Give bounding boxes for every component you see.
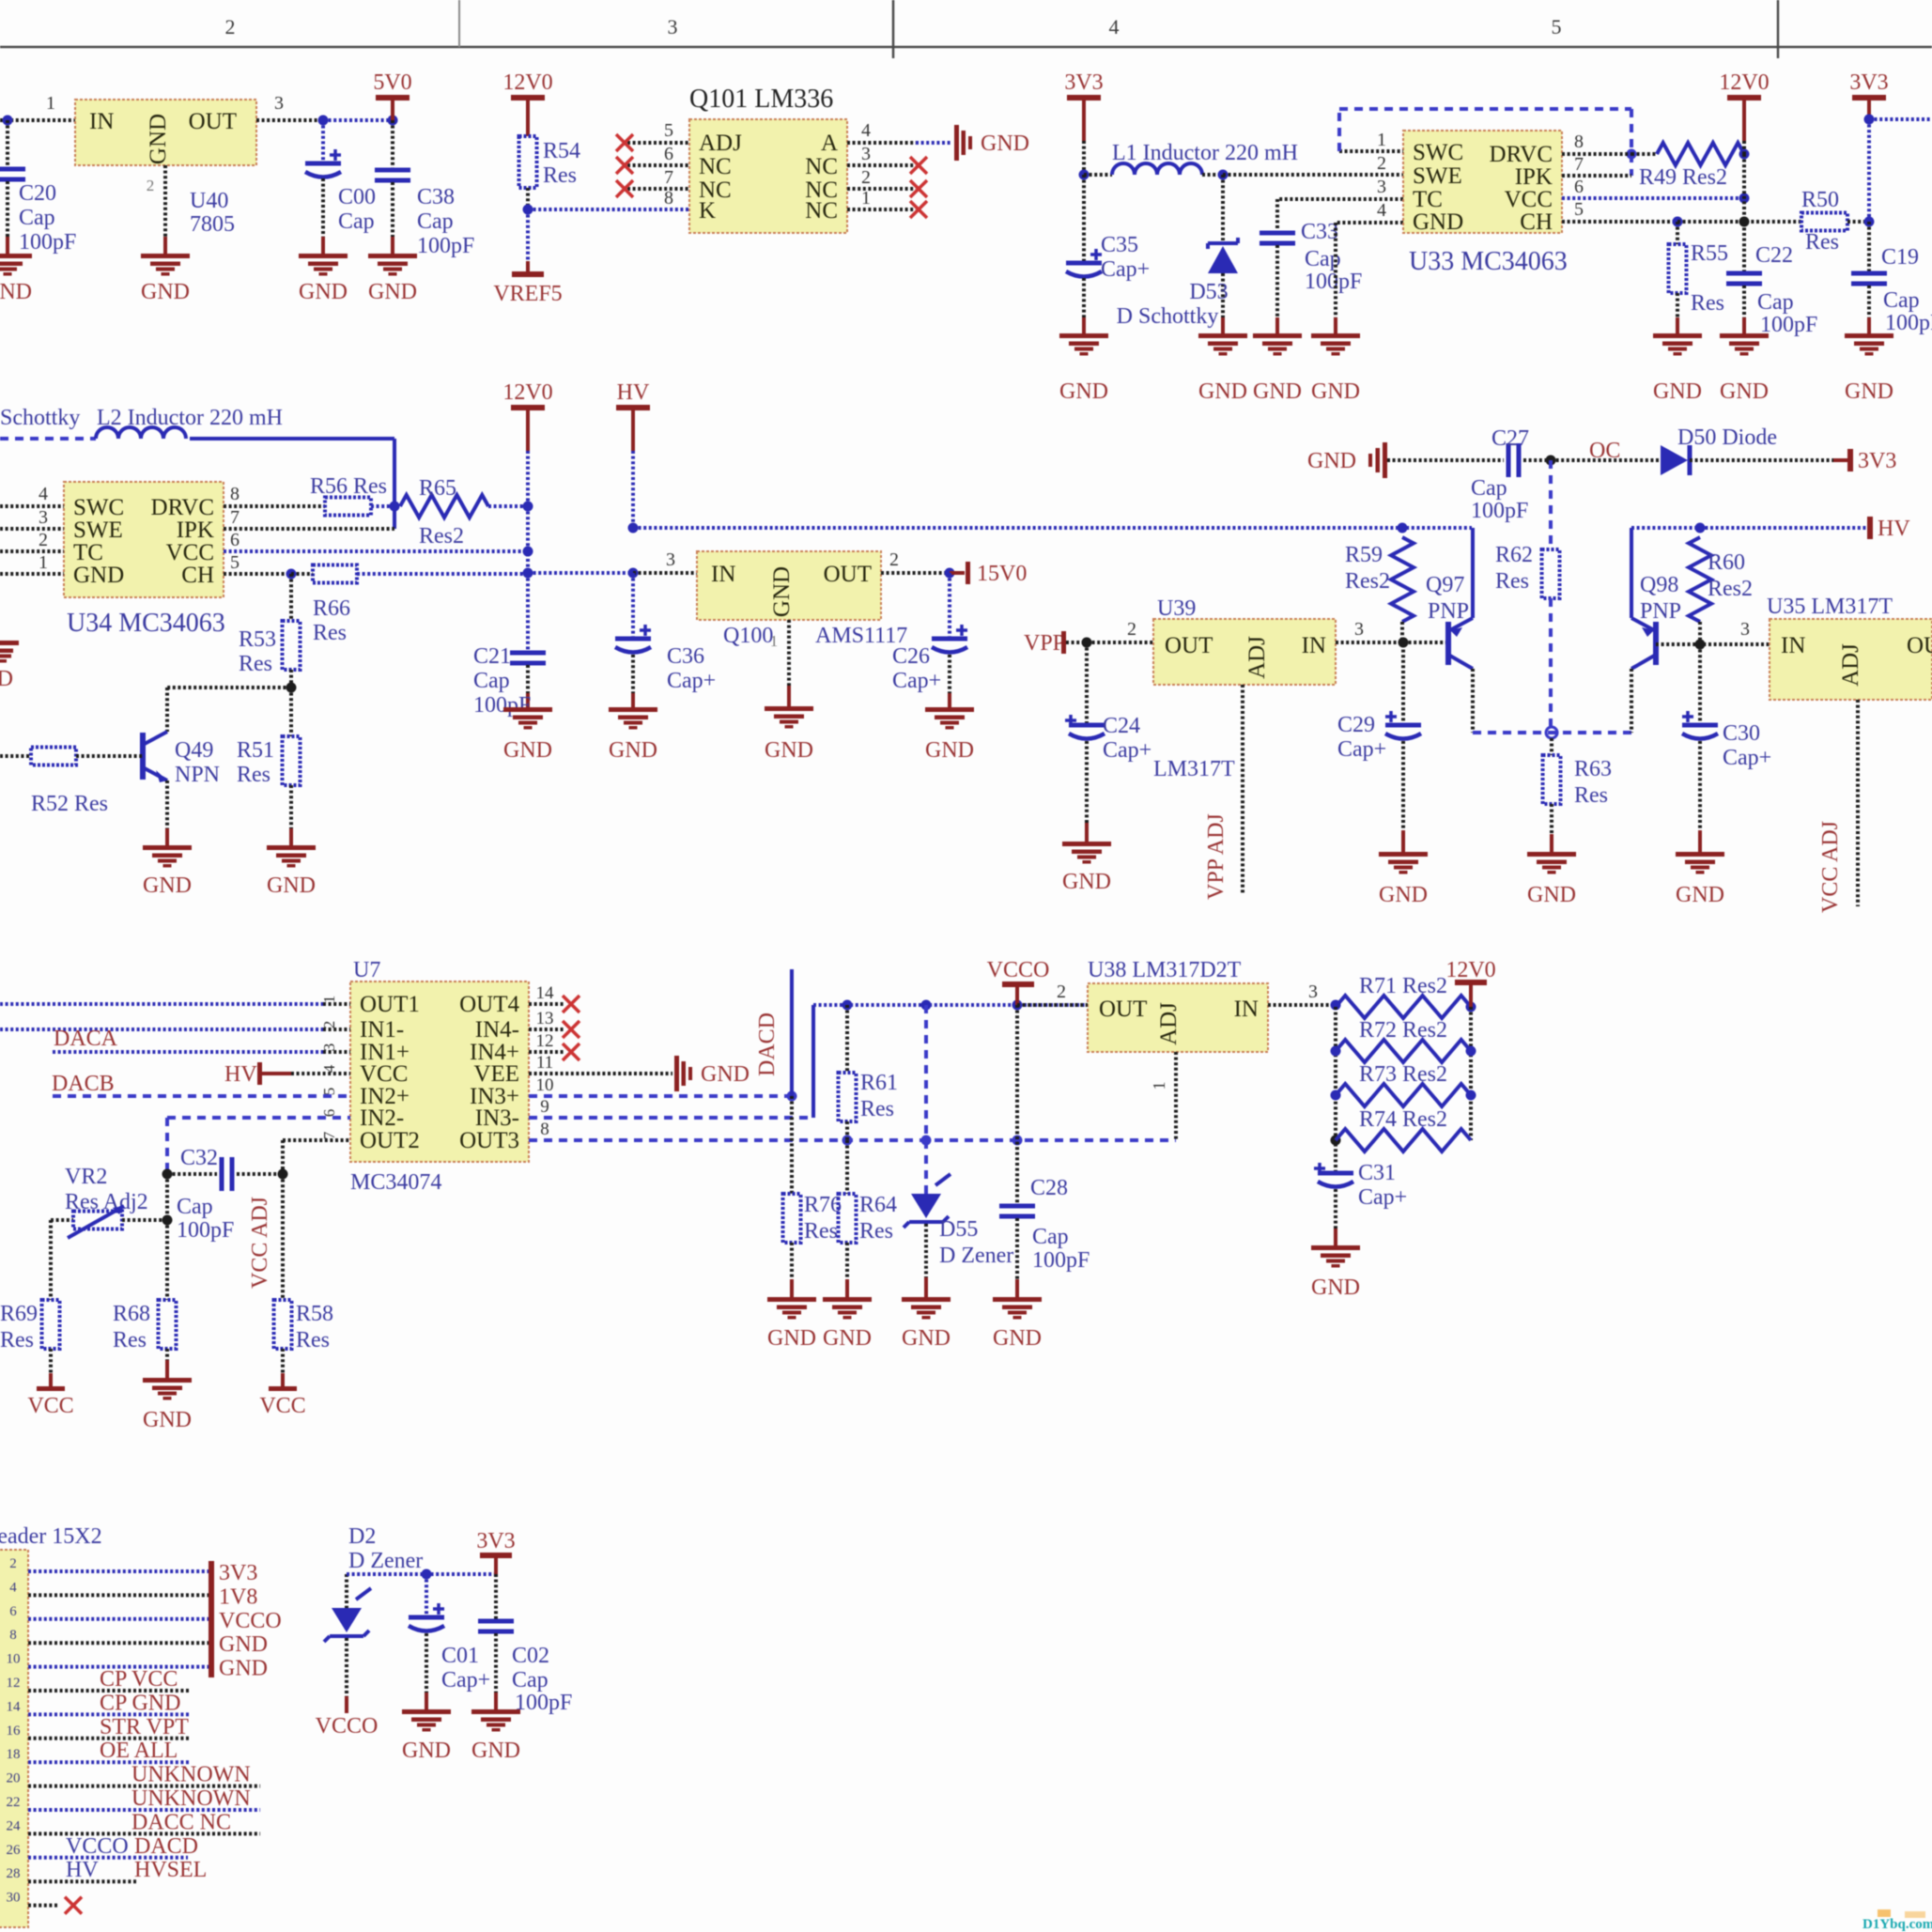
svg-text:Res2: Res2 <box>419 524 464 549</box>
pin 3 <box>1377 177 1386 197</box>
pin 7 <box>224 507 394 529</box>
svg-text:Cap: Cap <box>1471 476 1507 501</box>
svg-text:GND: GND <box>0 280 32 304</box>
svg-text:D50 Diode: D50 Diode <box>1677 425 1777 450</box>
resistor R73 <box>1336 1062 1471 1106</box>
svg-text:2: 2 <box>1127 619 1136 640</box>
wire <box>770 620 789 706</box>
svg-text:Res: Res <box>804 1219 838 1244</box>
svg-text:R66: R66 <box>313 596 350 621</box>
svg-text:C26: C26 <box>892 644 930 669</box>
svg-text:3: 3 <box>668 15 678 39</box>
svg-text:IPK: IPK <box>177 518 214 543</box>
capacitor C26 <box>892 573 967 707</box>
pin 3 <box>274 93 284 114</box>
svg-text:100pF: 100pF <box>1760 313 1817 337</box>
ground <box>1311 1245 1360 1300</box>
net HV <box>224 1062 350 1087</box>
svg-text:C19: C19 <box>1881 245 1919 270</box>
svg-text:Res: Res <box>860 1097 894 1121</box>
svg-text:2: 2 <box>225 15 236 39</box>
net 1V8 <box>219 1584 257 1609</box>
svg-text:HV: HV <box>66 1858 99 1882</box>
svg-text:100pF: 100pF <box>1471 499 1528 523</box>
capacitor C28 <box>999 1005 1090 1297</box>
wire adj <box>1204 685 1243 900</box>
svg-text:R63: R63 <box>1574 757 1612 781</box>
no-connect X <box>910 157 927 174</box>
svg-text:R59: R59 <box>1345 543 1383 567</box>
svg-text:16: 16 <box>7 1723 22 1739</box>
svg-text:GND: GND <box>267 873 316 898</box>
svg-text:D1Ybq.com: D1Ybq.com <box>1862 1917 1932 1932</box>
no-connect X <box>529 996 580 1012</box>
svg-text:18: 18 <box>7 1747 21 1762</box>
net CP VCC <box>100 1667 178 1692</box>
svg-text:3V3: 3V3 <box>1064 70 1103 95</box>
net VCCO DACD <box>66 1834 198 1859</box>
wire <box>1223 173 1403 177</box>
pin 8 <box>664 188 673 209</box>
svg-text:R69: R69 <box>0 1302 38 1326</box>
net CP GND <box>100 1691 180 1715</box>
svg-text:D Zener: D Zener <box>348 1549 423 1573</box>
svg-text:Cap+: Cap+ <box>892 669 941 693</box>
power 3V3 <box>476 1529 515 1574</box>
pin 10 <box>536 1075 554 1095</box>
connector Header 15X2 <box>0 1524 102 1927</box>
pin 2 <box>881 549 955 579</box>
ground <box>1653 333 1702 404</box>
svg-text:U7: U7 <box>353 958 380 982</box>
svg-text:C24: C24 <box>1103 714 1140 738</box>
svg-text:D55: D55 <box>939 1217 978 1242</box>
svg-text:Q98: Q98 <box>1640 573 1678 597</box>
pin 3 <box>847 144 916 165</box>
svg-text:Cap: Cap <box>417 209 454 234</box>
resistor R61 <box>839 1005 899 1140</box>
svg-text:Res: Res <box>1691 291 1724 316</box>
svg-text:1: 1 <box>1150 1082 1168 1090</box>
svg-text:R56 Res: R56 Res <box>310 474 387 499</box>
svg-text:U40: U40 <box>190 189 228 213</box>
svg-text:100pF: 100pF <box>1305 270 1362 294</box>
pin 6 <box>224 530 533 557</box>
svg-text:VEE: VEE <box>473 1061 519 1087</box>
svg-text:12V0: 12V0 <box>502 70 552 95</box>
svg-text:C33: C33 <box>1301 220 1338 244</box>
svg-text:6: 6 <box>664 144 673 164</box>
pin 8 <box>540 1120 549 1139</box>
svg-text:C31: C31 <box>1358 1161 1396 1185</box>
svg-text:C22: C22 <box>1755 243 1793 268</box>
svg-text:Q49: Q49 <box>175 738 213 763</box>
svg-text:R52 Res: R52 Res <box>31 792 108 816</box>
diode D53 schottky <box>1117 175 1238 333</box>
svg-text:Res: Res <box>859 1219 893 1244</box>
svg-text:DACA: DACA <box>54 1027 118 1051</box>
wire <box>1331 1007 1341 1171</box>
svg-text:SWC: SWC <box>73 495 124 520</box>
pin 2 <box>1087 619 1153 642</box>
regulator U35 LM317 <box>1767 595 1932 700</box>
svg-text:OUT2: OUT2 <box>360 1128 420 1153</box>
svg-text:HV: HV <box>617 380 650 405</box>
wire <box>347 1569 496 1580</box>
svg-text:GND: GND <box>73 563 124 588</box>
capacitor C38 <box>375 120 474 258</box>
svg-text:NC: NC <box>805 198 838 224</box>
resistor R53 <box>239 574 301 693</box>
svg-text:D Zener: D Zener <box>939 1244 1013 1268</box>
wire <box>1466 1007 1476 1140</box>
svg-text:OUT3: OUT3 <box>459 1128 519 1153</box>
svg-text:3V3: 3V3 <box>1858 449 1896 473</box>
pin 3 <box>0 507 64 529</box>
svg-text:IN: IN <box>1302 633 1326 658</box>
svg-text:VCC: VCC <box>259 1394 305 1418</box>
svg-text:Res: Res <box>0 1328 34 1352</box>
svg-text:GND: GND <box>925 738 974 763</box>
svg-text:5: 5 <box>230 552 240 573</box>
no-connect X <box>65 1897 82 1914</box>
svg-text:22: 22 <box>7 1795 21 1810</box>
pin 7 <box>1562 154 1631 176</box>
svg-text:3: 3 <box>1377 177 1386 197</box>
capacitor C22 <box>1726 243 1817 337</box>
svg-text:SWE: SWE <box>1413 163 1462 189</box>
no-connect X <box>616 134 633 151</box>
no-connect X <box>910 180 927 197</box>
svg-text:7: 7 <box>1574 154 1584 175</box>
svg-text:CH: CH <box>1520 209 1553 235</box>
svg-text:UNKNOWN: UNKNOWN <box>131 1763 251 1787</box>
capacitor C31 <box>1314 1161 1407 1245</box>
net GND <box>219 1632 268 1657</box>
wire <box>523 188 533 215</box>
pin 1 <box>1150 1052 1176 1140</box>
svg-text:2: 2 <box>861 167 871 188</box>
svg-text:Res: Res <box>313 621 347 645</box>
svg-text:2: 2 <box>320 1021 338 1029</box>
power 3V3 <box>1849 70 1888 125</box>
svg-text:12V0: 12V0 <box>502 380 552 405</box>
resistor R69 <box>0 1300 60 1386</box>
capacitor C36 <box>615 573 716 707</box>
svg-text:7: 7 <box>664 167 673 188</box>
wire <box>1739 154 1750 273</box>
svg-text:C32: C32 <box>180 1146 218 1170</box>
svg-text:Res: Res <box>1495 569 1529 594</box>
svg-text:VCC: VCC <box>166 540 214 565</box>
svg-text:GND: GND <box>1379 883 1428 907</box>
svg-text:GND: GND <box>1307 449 1356 473</box>
svg-text:R54: R54 <box>543 139 580 163</box>
svg-text:100pF: 100pF <box>1885 311 1932 335</box>
pin 12 <box>536 1031 554 1051</box>
svg-text:Header 15X2: Header 15X2 <box>0 1524 102 1549</box>
svg-text:2: 2 <box>39 530 48 550</box>
svg-text:GND: GND <box>1062 870 1111 894</box>
svg-text:GND: GND <box>765 738 813 763</box>
wire <box>167 688 291 732</box>
svg-text:4: 4 <box>9 1580 17 1595</box>
resistor R52 <box>0 748 143 817</box>
resistor R56 <box>310 474 394 516</box>
svg-text:R49 Res2: R49 Res2 <box>1639 165 1727 190</box>
pin 14 <box>536 983 555 1003</box>
svg-text:1: 1 <box>861 188 871 209</box>
ground <box>1845 333 1893 404</box>
svg-text:GND: GND <box>402 1739 451 1763</box>
wire <box>0 116 75 126</box>
svg-text:Cap: Cap <box>1757 290 1794 315</box>
svg-text:Res: Res <box>237 763 270 787</box>
svg-text:3: 3 <box>1740 619 1750 640</box>
wire <box>0 1028 350 1031</box>
capacitor C24 <box>1065 642 1151 842</box>
capacitor C27 <box>1387 426 1556 523</box>
svg-text:U38 LM317D2T: U38 LM317D2T <box>1088 958 1242 982</box>
wire <box>49 1220 53 1300</box>
svg-text:Cap+: Cap+ <box>667 669 716 693</box>
svg-text:Q100: Q100 <box>723 624 773 648</box>
svg-text:3V3: 3V3 <box>476 1529 515 1553</box>
svg-text:SWE: SWE <box>73 518 123 543</box>
svg-text:GND: GND <box>471 1739 520 1763</box>
ground <box>141 254 190 304</box>
svg-text:R51: R51 <box>237 738 274 763</box>
svg-text:GND: GND <box>299 280 348 304</box>
svg-text:CH: CH <box>181 563 214 588</box>
potentiometer VR2 <box>51 1165 173 1238</box>
wire adj <box>1818 700 1858 913</box>
wire <box>0 1002 350 1006</box>
pin 5 <box>224 552 297 580</box>
pin 3 <box>1268 981 1341 1011</box>
resistor R68 <box>113 1300 177 1378</box>
svg-text:2: 2 <box>1377 153 1386 174</box>
power HV <box>616 380 650 533</box>
svg-text:Res: Res <box>296 1328 330 1352</box>
svg-text:VCCO: VCCO <box>316 1714 379 1739</box>
net DACB <box>52 1072 350 1096</box>
net HV HVSEL <box>66 1858 207 1882</box>
svg-text:100pF: 100pF <box>417 234 474 258</box>
power 12V0 <box>1445 958 1495 1007</box>
svg-text:R74 Res2: R74 Res2 <box>1359 1107 1447 1132</box>
wire <box>1869 117 1932 121</box>
svg-text:CP GND: CP GND <box>100 1691 180 1715</box>
svg-text:GND: GND <box>1845 379 1893 404</box>
pin 2 <box>847 167 916 189</box>
svg-text:Cap: Cap <box>19 206 55 230</box>
wire <box>1630 528 1633 618</box>
wire <box>528 208 689 211</box>
power 12V0 <box>1719 70 1769 154</box>
pin 6 <box>627 144 689 165</box>
wire <box>633 571 697 575</box>
svg-text:SWC: SWC <box>1413 140 1463 165</box>
wire <box>1336 223 1403 333</box>
svg-text:DACC NC: DACC NC <box>131 1810 231 1834</box>
pin 4 <box>0 484 64 506</box>
svg-text:5: 5 <box>664 120 673 141</box>
svg-text:R58: R58 <box>296 1302 333 1326</box>
svg-text:R61: R61 <box>860 1071 898 1095</box>
ground <box>993 1297 1042 1351</box>
svg-text:HV: HV <box>1878 517 1910 541</box>
svg-text:GND: GND <box>219 1632 268 1657</box>
svg-text:L1 Inductor 220 mH: L1 Inductor 220 mH <box>1112 141 1298 165</box>
wire <box>165 1174 169 1300</box>
svg-text:7805: 7805 <box>190 212 235 237</box>
svg-text:R60: R60 <box>1708 550 1745 575</box>
svg-text:DACD: DACD <box>134 1834 198 1859</box>
svg-text:IN2-: IN2- <box>360 1105 404 1131</box>
capacitor C00 <box>305 120 376 254</box>
svg-text:1: 1 <box>1377 130 1386 150</box>
svg-text:OUT1: OUT1 <box>360 992 420 1017</box>
svg-text:4: 4 <box>1377 200 1386 221</box>
diode D2 zener <box>324 1524 423 1713</box>
pin 2 <box>320 1021 338 1029</box>
svg-text:10: 10 <box>536 1075 554 1095</box>
svg-text:UNKNOWN: UNKNOWN <box>131 1786 251 1811</box>
svg-text:100pF: 100pF <box>473 693 531 718</box>
ground <box>1062 842 1111 894</box>
pin 13 <box>536 1009 554 1028</box>
svg-text:8: 8 <box>1574 131 1584 152</box>
svg-text:6: 6 <box>9 1604 17 1619</box>
pin 5 <box>1562 199 1801 227</box>
svg-text:3: 3 <box>274 93 284 114</box>
pin 4 <box>847 120 952 143</box>
svg-text:100pF: 100pF <box>177 1218 234 1243</box>
svg-text:C02: C02 <box>512 1644 549 1668</box>
svg-text:R72 Res2: R72 Res2 <box>1359 1018 1447 1043</box>
resistor R71 <box>1336 974 1476 1018</box>
svg-text:IN3-: IN3- <box>475 1105 519 1131</box>
ground <box>1253 333 1302 404</box>
svg-text:Cap: Cap <box>1883 288 1920 313</box>
pin 2 <box>1377 153 1386 174</box>
svg-text:OUT: OUT <box>1907 633 1932 658</box>
svg-text:U34 MC34063: U34 MC34063 <box>67 609 225 638</box>
svg-text:2: 2 <box>1057 981 1066 1002</box>
capacitor C20 <box>0 120 76 255</box>
ground <box>143 845 192 898</box>
svg-text:1: 1 <box>320 996 338 1004</box>
pin 7 <box>627 167 689 189</box>
regulator Q100 AMS1117 <box>697 551 907 648</box>
svg-text:MC34074: MC34074 <box>350 1170 441 1195</box>
reference Q101 LM336 <box>689 85 847 233</box>
capacitor C30 <box>1682 644 1771 852</box>
svg-text:Cap+: Cap+ <box>1103 738 1151 763</box>
power VCCO <box>987 958 1050 1005</box>
svg-text:Res2: Res2 <box>1345 569 1390 594</box>
power 12V0 <box>502 380 552 506</box>
svg-text:GND: GND <box>0 667 13 691</box>
svg-text:C27: C27 <box>1492 426 1529 451</box>
pin numbers <box>7 1556 22 1906</box>
svg-text:OUT: OUT <box>824 562 872 587</box>
ground <box>143 1378 192 1432</box>
svg-text:Cap: Cap <box>338 209 375 234</box>
wire <box>165 781 169 845</box>
svg-text:14: 14 <box>7 1699 22 1714</box>
pin 1 <box>847 188 916 209</box>
svg-text:Cap: Cap <box>177 1195 213 1219</box>
svg-text:Res2: Res2 <box>1708 577 1753 601</box>
svg-text:GND: GND <box>902 1326 951 1351</box>
svg-text:GND: GND <box>368 280 417 304</box>
resistor R59 <box>1345 537 1414 644</box>
pin 1 <box>320 996 338 1004</box>
svg-text:12: 12 <box>536 1031 554 1051</box>
net 15V0 <box>950 562 1027 586</box>
svg-text:C28: C28 <box>1030 1176 1068 1200</box>
resistor R51 <box>237 688 301 845</box>
transistor Q97 PNP <box>1426 573 1473 669</box>
pin 8 <box>1562 131 1631 154</box>
svg-text:6: 6 <box>1574 177 1584 197</box>
svg-text:GND: GND <box>1311 379 1360 404</box>
svg-text:R73 Res2: R73 Res2 <box>1359 1062 1447 1087</box>
svg-text:4: 4 <box>861 120 871 141</box>
wire <box>390 439 400 529</box>
svg-text:VPP ADJ: VPP ADJ <box>1204 813 1229 900</box>
svg-text:VCC ADJ: VCC ADJ <box>1818 821 1843 913</box>
svg-text:GND: GND <box>146 114 171 164</box>
pin 6 <box>1562 177 1750 204</box>
svg-text:TC: TC <box>73 540 103 565</box>
ground <box>1307 442 1387 478</box>
svg-text:A: A <box>821 131 838 156</box>
capacitor C35 <box>1066 175 1150 333</box>
wire <box>529 1091 797 1102</box>
svg-text:U33 MC34063: U33 MC34063 <box>1409 247 1568 276</box>
power bus <box>209 1561 214 1677</box>
wire <box>256 116 398 126</box>
pin 1 <box>0 552 64 574</box>
capacitor C21 <box>473 573 546 718</box>
svg-text:GND: GND <box>1198 379 1247 404</box>
ground <box>902 1297 951 1351</box>
svg-text:PNP: PNP <box>1640 599 1681 624</box>
svg-text:R71 Res2: R71 Res2 <box>1359 974 1447 998</box>
pin 5 <box>627 120 689 143</box>
svg-text:GND: GND <box>503 738 552 763</box>
svg-text:DACB: DACB <box>52 1072 115 1096</box>
svg-text:IN1-: IN1- <box>360 1017 404 1043</box>
power 3V3 <box>1064 70 1103 180</box>
svg-text:ADJ: ADJ <box>1838 643 1863 687</box>
svg-text:5: 5 <box>320 1088 338 1096</box>
wire <box>1867 119 1871 222</box>
svg-text:NPN: NPN <box>175 763 220 787</box>
svg-text:R62: R62 <box>1495 543 1533 567</box>
ground <box>503 707 552 763</box>
pin 3 <box>320 1043 338 1052</box>
transistor Q98 PNP <box>1631 573 1681 669</box>
capacitor C33 <box>1260 199 1403 333</box>
resistor R76 <box>783 1193 842 1297</box>
wire <box>147 165 165 254</box>
net UNKNOWN <box>131 1763 251 1787</box>
pin 1 <box>46 93 55 114</box>
